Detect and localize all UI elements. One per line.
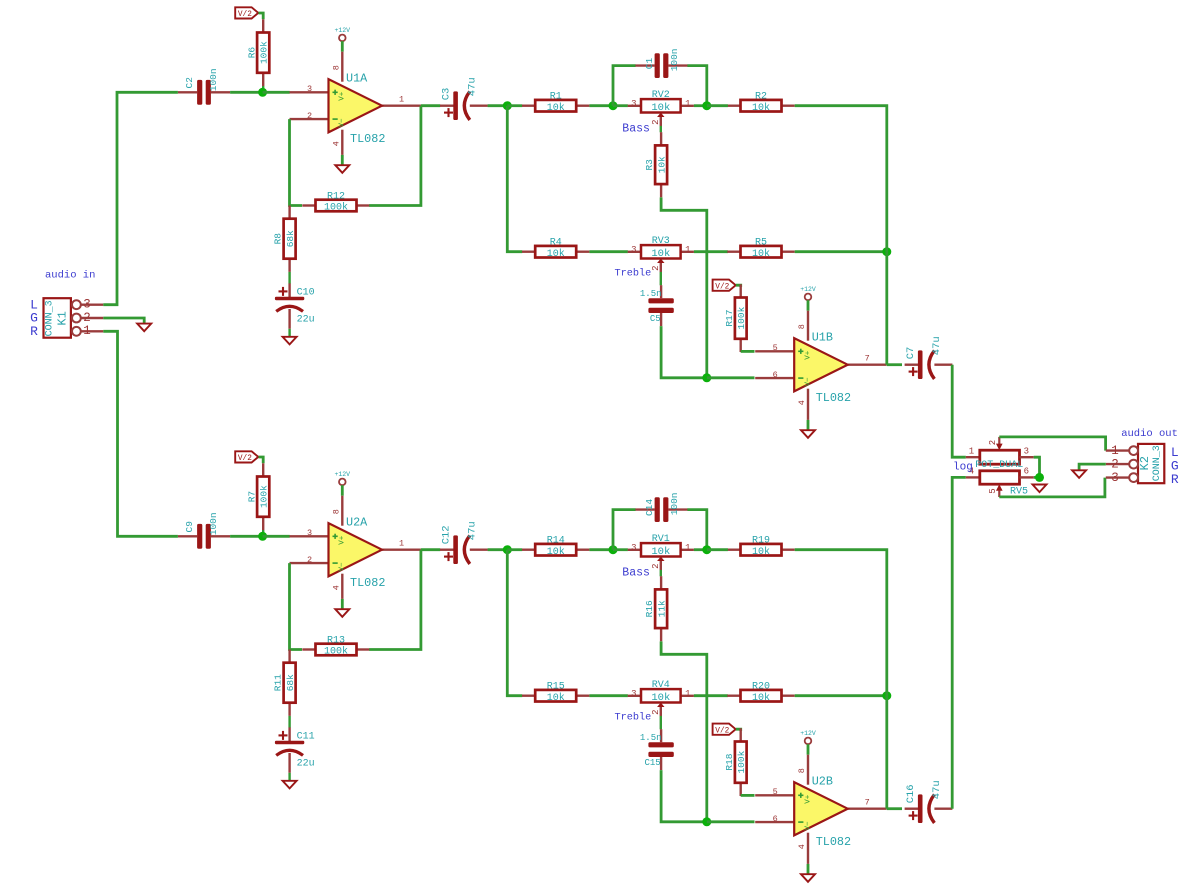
svg-text:10k: 10k [651, 248, 670, 260]
svg-text:7: 7 [865, 354, 870, 364]
resistor R18 100k (bias) [740, 728, 742, 741]
wire [369, 550, 421, 650]
svg-text:RV2: RV2 [652, 90, 670, 101]
svg-text:10k: 10k [547, 546, 565, 558]
wire RV5 wiper B to K2 pin3 [999, 478, 1105, 497]
svg-text:2: 2 [651, 563, 661, 568]
svg-text:R20: R20 [752, 682, 770, 693]
svg-text:C15: C15 [644, 758, 660, 768]
wire [707, 104, 728, 107]
wire K1 pin2 to ground [103, 318, 144, 324]
wire [707, 376, 755, 379]
wire [613, 548, 628, 551]
svg-text:R17: R17 [724, 310, 735, 327]
svg-text:3: 3 [1024, 447, 1029, 457]
wire [1034, 476, 1040, 479]
svg-text:100k: 100k [258, 41, 269, 64]
K1 pin circle 1 [72, 327, 81, 336]
svg-text:audio out: audio out [1121, 428, 1178, 440]
wire K1 pin1 to right channel input [103, 331, 178, 536]
wire [736, 729, 741, 731]
wire [694, 548, 707, 551]
svg-text:R1: R1 [550, 92, 562, 103]
svg-text:10k: 10k [651, 692, 670, 704]
K1 pin circle 2 [72, 314, 81, 323]
svg-text:RV1: RV1 [652, 534, 670, 545]
svg-text:RV4: RV4 [652, 680, 670, 691]
connector K2 CONN_3 (audio out) [1138, 444, 1164, 483]
node junction [882, 247, 891, 256]
svg-text:C5: C5 [650, 314, 661, 324]
power flag V/2 (feeds R17) [713, 280, 736, 291]
wire [263, 535, 290, 538]
wire [613, 104, 628, 107]
svg-text:TL082: TL082 [350, 132, 385, 146]
svg-text:2: 2 [307, 555, 312, 565]
svg-text:10k: 10k [547, 102, 565, 114]
svg-text:100n: 100n [669, 492, 680, 515]
svg-text:+12V: +12V [800, 730, 816, 737]
wire K1 pin3 to left channel input [103, 92, 178, 304]
wire [288, 716, 290, 728]
svg-text:R7: R7 [246, 491, 257, 502]
wire left channel output down to volume pot [952, 365, 966, 458]
wire [707, 548, 728, 551]
resistor R16 11k [660, 576, 662, 589]
wire [288, 272, 290, 284]
svg-text:1: 1 [399, 95, 404, 105]
wire [421, 104, 440, 107]
svg-text:8: 8 [332, 509, 342, 514]
svg-text:4: 4 [332, 141, 342, 146]
svg-text:1: 1 [399, 539, 404, 549]
node junction [609, 101, 618, 110]
potentiometer RV1 10k (Bass) [628, 549, 641, 551]
wire [288, 773, 290, 781]
svg-text:+12V: +12V [334, 27, 350, 34]
capacitor C14 100n (across bass pot) [635, 508, 654, 510]
svg-text:V+: V+ [339, 535, 347, 545]
svg-text:U2A: U2A [346, 516, 368, 530]
svg-text:4: 4 [332, 585, 342, 590]
wire [262, 530, 264, 536]
svg-text:1.5n: 1.5n [640, 733, 662, 743]
wire (feedback to inverting input) [290, 563, 303, 649]
wire [369, 106, 421, 206]
svg-text:100k: 100k [324, 646, 348, 658]
potentiometer RV3 10k (Treble) [628, 251, 641, 253]
wire [259, 13, 264, 19]
svg-text:K2: K2 [1138, 456, 1152, 470]
wire (wiper to R3) [660, 570, 662, 576]
capacitor C2 100n (input coupling) [178, 91, 197, 93]
wire [262, 86, 264, 92]
resistor R1 10k [522, 104, 535, 106]
svg-text:22u: 22u [297, 758, 315, 769]
wire K2 pin2 to ground [1079, 464, 1106, 470]
svg-text:3: 3 [631, 245, 636, 255]
wire [507, 106, 522, 252]
svg-text:C12: C12 [440, 525, 452, 544]
svg-text:R13: R13 [327, 636, 345, 647]
svg-text:47u: 47u [466, 521, 478, 540]
wire [736, 285, 741, 287]
svg-text:R4: R4 [550, 238, 562, 249]
svg-text:100n: 100n [208, 512, 219, 535]
wire [887, 363, 902, 366]
svg-text:V−: V− [804, 821, 812, 831]
svg-text:C3: C3 [440, 88, 452, 101]
potentiometer RV4 10k (Treble) [628, 695, 641, 697]
svg-text:Bass: Bass [622, 567, 650, 580]
wire [488, 104, 508, 107]
resistor R6 100k (bias) [262, 19, 264, 32]
svg-text:R16: R16 [644, 600, 655, 617]
resistor R19 10k [727, 549, 740, 551]
wire [230, 535, 263, 538]
capacitor C15 1.5n [660, 729, 662, 742]
node junction [609, 545, 618, 554]
svg-text:C14: C14 [644, 499, 655, 516]
node junction [503, 101, 512, 110]
svg-text:100n: 100n [669, 48, 680, 71]
svg-text:3: 3 [83, 298, 91, 312]
svg-text:5: 5 [773, 787, 778, 797]
svg-text:10k: 10k [752, 248, 770, 260]
svg-text:8: 8 [797, 324, 807, 329]
power flag V/2 (feeds R18) [713, 724, 736, 735]
svg-text:8: 8 [797, 768, 807, 773]
resistor R17 100k (bias) [740, 284, 742, 297]
capacitor C1 100n (across bass pot) [635, 64, 654, 66]
svg-text:Bass: Bass [622, 123, 650, 136]
wire [288, 329, 290, 337]
svg-text:+12V: +12V [800, 286, 816, 293]
connector K1 CONN_3 (audio in) [44, 298, 71, 338]
ground [1072, 470, 1086, 478]
resistor R12 100k (feedback) [302, 204, 315, 206]
svg-text:V+: V+ [804, 794, 812, 804]
op-amp U2A (TL082, input buffer) [290, 535, 329, 537]
wire [694, 250, 728, 253]
wire (bass cap branch) [613, 510, 636, 550]
svg-text:TL082: TL082 [816, 835, 851, 849]
wire [507, 548, 522, 551]
wire [230, 91, 263, 94]
svg-text:Treble: Treble [615, 268, 652, 280]
capacitor C16 47u (output electrolytic) [905, 808, 921, 810]
svg-text:68k: 68k [285, 230, 296, 247]
wire [507, 550, 522, 696]
svg-text:100k: 100k [324, 202, 348, 214]
wire [795, 250, 887, 253]
wire [589, 548, 613, 551]
svg-text:47u: 47u [931, 780, 943, 799]
svg-text:K1: K1 [56, 311, 70, 325]
svg-text:4: 4 [797, 844, 807, 849]
ground [283, 337, 297, 345]
svg-text:1: 1 [1111, 444, 1119, 458]
node junction [1035, 473, 1044, 482]
K1 pin circle 3 [72, 300, 81, 309]
resistor R8 68k [288, 206, 290, 219]
wire [661, 326, 707, 378]
wire [741, 794, 755, 797]
ground [335, 609, 349, 617]
svg-text:TL082: TL082 [350, 576, 385, 590]
svg-text:100k: 100k [736, 306, 747, 329]
svg-text:68k: 68k [285, 674, 296, 691]
resistor R11 68k [288, 650, 290, 663]
svg-text:Treble: Treble [615, 712, 652, 724]
svg-text:C9: C9 [184, 521, 195, 533]
svg-text:V−: V− [339, 562, 347, 572]
wire [259, 457, 264, 463]
svg-text:22u: 22u [297, 314, 315, 325]
svg-text:100k: 100k [258, 485, 269, 508]
resistor R15 10k [522, 695, 535, 697]
svg-text:6: 6 [1024, 467, 1029, 477]
wire (treble wiper to C5) [660, 272, 662, 285]
svg-text:7: 7 [865, 798, 870, 808]
wire [589, 694, 628, 697]
wire (wiper to R3) [660, 126, 662, 132]
resistor R13 100k (feedback) [302, 648, 315, 650]
wire [795, 694, 887, 697]
svg-text:6: 6 [773, 814, 778, 824]
svg-text:10k: 10k [651, 102, 670, 114]
wire [887, 807, 902, 810]
svg-text:3: 3 [1111, 471, 1119, 485]
svg-text:R6: R6 [246, 47, 257, 59]
svg-text:R8: R8 [273, 233, 284, 245]
resistor R4 10k [522, 250, 535, 252]
svg-text:47u: 47u [466, 77, 478, 96]
resistor R7 100k (bias) [262, 463, 264, 476]
svg-text:3: 3 [307, 84, 312, 94]
svg-text:R5: R5 [755, 238, 767, 249]
resistor R14 10k [522, 549, 535, 551]
svg-text:2: 2 [651, 265, 661, 270]
node junction [702, 545, 711, 554]
svg-text:R12: R12 [327, 192, 345, 203]
wire (R2 row down to tone amp output) [795, 550, 887, 809]
svg-text:1: 1 [685, 245, 690, 255]
wire [589, 104, 613, 107]
svg-text:2: 2 [651, 119, 661, 124]
svg-text:10k: 10k [547, 248, 565, 260]
op-amp U1A (TL082, input buffer) [290, 91, 329, 93]
svg-text:log: log [953, 462, 973, 474]
wire [687, 510, 706, 550]
svg-text:R11: R11 [273, 674, 284, 691]
svg-text:R3: R3 [644, 159, 655, 171]
svg-text:2: 2 [1111, 458, 1119, 472]
svg-text:11k: 11k [656, 600, 667, 617]
svg-text:V/2: V/2 [715, 283, 729, 291]
op-amp U2B (TL082, tone amp) [755, 794, 794, 796]
node junction [258, 88, 267, 97]
wire [661, 770, 707, 822]
wire [694, 104, 707, 107]
power flag V/2 (feeds R6) [235, 7, 258, 18]
svg-text:U1A: U1A [346, 72, 368, 86]
svg-text:audio in: audio in [45, 270, 95, 282]
resistor R2 10k [727, 104, 740, 106]
wire RV5 pin3 to pin6 junction [1034, 457, 1040, 477]
svg-text:2: 2 [83, 311, 91, 325]
K2 pin circle 1 [1129, 446, 1138, 455]
capacitor C12 47u (coupling electrolytic) [440, 549, 456, 551]
svg-text:CONN_3: CONN_3 [1152, 445, 1163, 481]
K2 pin circle 3 [1129, 473, 1138, 482]
node junction [702, 373, 711, 382]
svg-text:R18: R18 [724, 753, 735, 770]
svg-text:R: R [30, 324, 38, 339]
svg-text:5: 5 [988, 488, 998, 493]
wire [741, 350, 755, 353]
svg-text:10k: 10k [752, 102, 770, 114]
svg-text:2: 2 [651, 709, 661, 714]
svg-text:V−: V− [339, 118, 347, 128]
svg-text:V+: V+ [339, 91, 347, 101]
svg-text:V/2: V/2 [238, 11, 252, 19]
resistor R3 10k [660, 132, 662, 145]
svg-text:C1: C1 [644, 58, 655, 70]
svg-text:CONN_3: CONN_3 [45, 300, 56, 336]
svg-text:1: 1 [685, 543, 690, 553]
node junction [702, 101, 711, 110]
svg-text:U1B: U1B [812, 331, 833, 345]
node junction [882, 691, 891, 700]
svg-text:2: 2 [307, 111, 312, 121]
wire [263, 91, 290, 94]
node junction [702, 817, 711, 826]
svg-text:C16: C16 [905, 784, 917, 803]
svg-text:100n: 100n [208, 68, 219, 91]
wire (bass cap branch) [613, 66, 636, 106]
power flag V/2 (feeds R7) [235, 451, 258, 462]
wire [661, 197, 707, 377]
svg-text:V−: V− [804, 377, 812, 387]
wire (feedback to inverting input) [290, 119, 303, 205]
svg-text:V/2: V/2 [238, 455, 252, 463]
svg-text:R19: R19 [752, 536, 770, 547]
capacitor C3 47u (coupling electrolytic) [440, 104, 456, 106]
resistor R5 10k [727, 250, 740, 252]
svg-text:8: 8 [332, 65, 342, 70]
capacitor C9 100n (input coupling) [178, 535, 197, 537]
svg-text:3: 3 [631, 99, 636, 109]
svg-text:47u: 47u [931, 336, 943, 355]
op-amp U1B (TL082, tone amp) [755, 350, 794, 352]
svg-text:R2: R2 [755, 92, 767, 103]
wire [707, 820, 755, 823]
resistor R20 10k [727, 695, 740, 697]
svg-text:R: R [1171, 472, 1179, 487]
wire [589, 250, 628, 253]
wire [421, 548, 440, 551]
svg-text:4: 4 [797, 400, 807, 405]
K2 pin circle 2 [1129, 460, 1138, 469]
ground [137, 324, 151, 332]
svg-text:10k: 10k [656, 156, 667, 173]
svg-text:V/2: V/2 [715, 727, 729, 735]
svg-text:10k: 10k [752, 546, 770, 558]
wire [694, 694, 728, 697]
ground [335, 165, 349, 173]
svg-text:POT_DUAL: POT_DUAL [975, 460, 1023, 471]
svg-text:C7: C7 [905, 347, 917, 360]
wire (R2 row down to tone amp output) [795, 106, 887, 365]
svg-text:+12V: +12V [334, 471, 350, 478]
svg-text:1: 1 [969, 447, 974, 457]
svg-text:5: 5 [773, 343, 778, 353]
capacitor C11 22u (electrolytic to ground) [288, 727, 290, 742]
svg-text:1: 1 [685, 99, 690, 109]
svg-text:10k: 10k [752, 692, 770, 704]
svg-text:RV3: RV3 [652, 236, 670, 247]
svg-text:1.5n: 1.5n [640, 289, 662, 299]
ground [801, 874, 815, 882]
capacitor C5 1.5n [660, 285, 662, 298]
ground [1033, 485, 1047, 493]
svg-text:6: 6 [773, 370, 778, 380]
svg-text:10k: 10k [547, 692, 565, 704]
wire [507, 104, 522, 107]
capacitor C7 47u (output electrolytic) [905, 364, 921, 366]
svg-text:R15: R15 [547, 682, 565, 693]
ground [283, 781, 297, 789]
svg-text:C2: C2 [184, 77, 195, 89]
svg-text:C11: C11 [297, 731, 315, 742]
potentiometer RV2 10k (Bass) [628, 105, 641, 107]
dual potentiometer RV5 POT_DUAL (volume, unit B) [966, 476, 980, 478]
wire [488, 548, 508, 551]
wire [661, 641, 707, 821]
wire [687, 66, 706, 106]
svg-text:100k: 100k [736, 750, 747, 773]
svg-text:2: 2 [988, 440, 998, 445]
svg-text:U2B: U2B [812, 775, 833, 789]
capacitor C10 22u (electrolytic to ground) [288, 283, 290, 298]
svg-text:3: 3 [631, 689, 636, 699]
node junction [503, 545, 512, 554]
wire RV5 wiper A to K2 pin1 [999, 437, 1105, 451]
svg-text:V+: V+ [804, 350, 812, 360]
wire (treble wiper to C5) [660, 716, 662, 729]
svg-text:1: 1 [685, 689, 690, 699]
svg-text:TL082: TL082 [816, 391, 851, 405]
svg-text:10k: 10k [651, 546, 670, 558]
node junction [258, 532, 267, 541]
dual potentiometer RV5 POT_DUAL (volume, unit A) [966, 456, 980, 458]
svg-text:1: 1 [83, 324, 91, 338]
svg-text:3: 3 [307, 528, 312, 538]
svg-text:C10: C10 [297, 287, 315, 298]
svg-text:R14: R14 [547, 536, 565, 547]
wire right channel output up to volume pot [952, 477, 966, 808]
ground [801, 430, 815, 438]
svg-text:3: 3 [631, 543, 636, 553]
